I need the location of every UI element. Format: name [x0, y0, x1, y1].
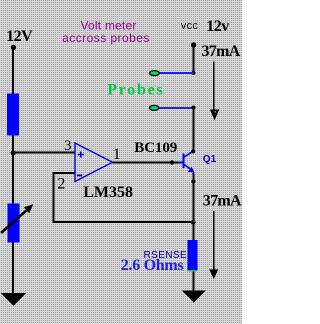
current arrow (bottom)	[213, 211, 215, 270]
emitter junction dot	[191, 179, 195, 183]
probe 1	[150, 71, 160, 76]
svg-text:Q1: Q1	[203, 154, 217, 165]
probe 2	[150, 105, 159, 110]
potentiometer (lower left)	[8, 204, 20, 243]
wire probe 2 to collector	[193, 108, 195, 153]
wire op-amp output to base	[172, 162, 179, 164]
node VCC dot	[191, 42, 196, 47]
magenta junction artifact	[194, 220, 196, 222]
svg-text:37mA: 37mA	[203, 193, 242, 210]
svg-text:3: 3	[64, 138, 72, 154]
wire VCC to probe 1	[193, 45, 195, 74]
wire junction to op-amp pin 3	[12, 152, 75, 154]
wire emitter to RSENSE	[193, 172, 195, 240]
svg-text:accross probes: accross probes	[62, 31, 150, 45]
current arrow (top)	[213, 62, 215, 111]
potentiometer arrow	[1, 204, 33, 233]
svg-text:2: 2	[57, 175, 65, 192]
ground (right)	[182, 291, 207, 303]
svg-text:BC109: BC109	[134, 140, 177, 156]
svg-text:12v: 12v	[206, 18, 229, 35]
feedback junction dot	[191, 220, 196, 225]
transistor Q1	[178, 151, 195, 173]
svg-text:12V: 12V	[6, 28, 33, 45]
resistor (upper left)	[7, 94, 19, 136]
op-amp U1 LM358	[75, 143, 113, 182]
wire op-amp pin 2	[53, 172, 76, 174]
wire op-amp output	[113, 162, 183, 164]
junction dot to op-amp	[11, 150, 16, 155]
wire probe 2 (blue)	[159, 107, 194, 109]
wire feedback vertical	[53, 172, 55, 223]
svg-text:1: 1	[113, 146, 121, 163]
probe 1 junction dot	[192, 71, 196, 75]
wire RSENSE to ground	[193, 272, 195, 292]
wire 12V node to resistor	[12, 48, 14, 95]
RSENSE green mark	[188, 270, 198, 272]
wire potentiometer to ground	[12, 243, 14, 294]
wire feedback bottom horizontal	[53, 221, 195, 223]
ground (left)	[1, 293, 27, 306]
title text	[62, 19, 150, 46]
node 12V junction dot	[11, 45, 16, 50]
junction dot on output wire	[170, 160, 174, 164]
svg-text:LM358: LM358	[83, 184, 133, 201]
svg-text:Probes: Probes	[107, 81, 164, 98]
collector junction dot	[191, 149, 195, 153]
resistor RSENSE	[188, 240, 198, 270]
svg-text:37mA: 37mA	[202, 43, 241, 60]
wire probe 1 (blue)	[159, 72, 194, 74]
svg-text:vcc: vcc	[181, 20, 199, 32]
probe 2 corner dot	[192, 106, 196, 110]
svg-text:2.6 Ohms: 2.6 Ohms	[121, 257, 184, 274]
wire resistor to junction	[12, 136, 14, 205]
